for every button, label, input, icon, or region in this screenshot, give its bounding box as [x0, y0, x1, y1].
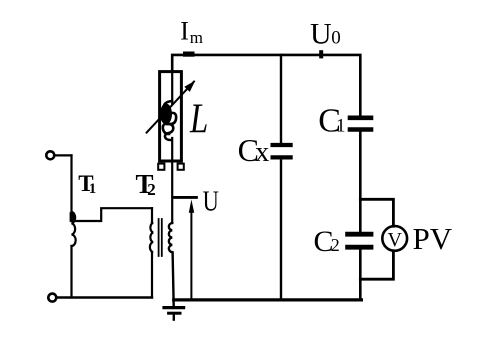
wire PV loop bottom	[360, 251, 393, 279]
svg-text:U: U	[310, 18, 332, 51]
inductor variable arrow	[147, 82, 194, 133]
svg-text:m: m	[190, 28, 203, 47]
wire T2 primary top	[151, 208, 153, 223]
svg-text:I: I	[180, 17, 189, 46]
wire T2 secondary to ground	[173, 253, 174, 307]
terminal top-left	[46, 151, 54, 159]
transformer T2 left winding	[150, 223, 153, 252]
wire Cx branch lower	[280, 160, 282, 300]
svg-text:U: U	[203, 186, 219, 217]
ground bar 1	[164, 306, 184, 309]
svg-text:x: x	[255, 137, 269, 168]
svg-text:2: 2	[331, 235, 340, 255]
U arrow shaft	[190, 206, 192, 300]
inductor L foot right	[178, 164, 184, 170]
wire T1 vertical lower	[70, 246, 72, 298]
U measure tick	[173, 196, 196, 199]
wire PV loop top	[360, 199, 393, 226]
capacitor C2 plates	[348, 232, 371, 237]
wire T1 vertical upper	[70, 155, 72, 212]
wire top terminal to T1	[55, 154, 72, 156]
inductor L foot left	[158, 164, 164, 170]
wire bottom left	[57, 296, 152, 298]
wire inside box upper	[171, 72, 173, 104]
wire right branch lower	[359, 249, 362, 299]
wire T2 primary bottom	[151, 252, 153, 298]
svg-text:V: V	[387, 229, 402, 251]
Im current arrow	[183, 52, 195, 57]
wire bottom right	[174, 298, 362, 301]
svg-text:1: 1	[336, 115, 346, 136]
transformer T2 core	[159, 219, 162, 256]
capacitor Cx plates	[273, 143, 291, 147]
svg-text:2: 2	[147, 180, 156, 199]
wire right branch middle	[359, 132, 362, 232]
capacitor C1 plates	[350, 116, 371, 121]
terminal bottom-left	[48, 294, 56, 302]
U arrow head	[189, 199, 194, 212]
svg-text:1: 1	[89, 181, 97, 197]
svg-text:0: 0	[331, 28, 341, 49]
inductor L box	[160, 72, 182, 161]
transformer T1 winding	[72, 212, 76, 246]
transformer T2 right winding	[169, 223, 172, 252]
wire Cx branch upper	[280, 55, 282, 143]
wire step from T1 to T2	[72, 208, 153, 221]
inductor L coil scribble	[163, 101, 176, 140]
U0 junction tick	[319, 50, 323, 58]
svg-text:L: L	[189, 96, 208, 143]
svg-text:PV: PV	[413, 221, 453, 256]
ground bar 2	[169, 312, 180, 315]
voltmeter PV circle	[382, 226, 407, 251]
wire top: L to top rail and down right branch	[172, 55, 360, 116]
wire L bottom to T2	[171, 138, 173, 223]
ground tick	[173, 315, 175, 320]
